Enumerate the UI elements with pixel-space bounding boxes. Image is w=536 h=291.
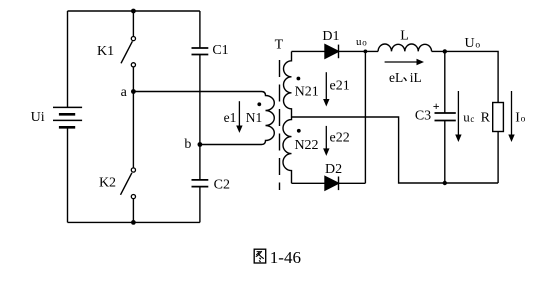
node top junction bbox=[131, 9, 136, 14]
wire D1 to L through node uo bbox=[339, 50, 379, 52]
polarity dot N22 bbox=[297, 129, 301, 133]
wire N22 bottom to D2 bbox=[292, 182, 326, 184]
wire K1 to K2 through node a bbox=[132, 67, 134, 167]
wire K branch top bbox=[132, 11, 134, 36]
svg-text:C2: C2 bbox=[214, 178, 230, 193]
wire left rail (battery branch bottom) bbox=[67, 128, 69, 222]
svg-text:+: + bbox=[433, 99, 440, 113]
node uo bbox=[364, 50, 368, 54]
wire C3 to bottom rail bbox=[444, 121, 446, 184]
inductor L bbox=[378, 44, 432, 51]
capacitor C3 bbox=[435, 113, 456, 121]
diode D1 bbox=[325, 45, 339, 59]
svg-text:N1: N1 bbox=[246, 110, 263, 125]
battery Ui bbox=[53, 107, 82, 127]
transformer core (dashed) bbox=[279, 60, 281, 190]
svg-text:b: b bbox=[184, 137, 191, 152]
arrow uc bbox=[457, 91, 459, 135]
wire top rail bbox=[68, 10, 200, 12]
wire uo vertical bbox=[364, 51, 366, 183]
transformer primary winding N1 bbox=[262, 92, 275, 145]
wire center tap bbox=[292, 117, 499, 183]
svg-text:eL: eL bbox=[389, 70, 403, 85]
node a bbox=[131, 89, 136, 94]
resistor R bbox=[493, 103, 504, 132]
arrow e21 bbox=[325, 72, 327, 99]
caption: hanzi tu (drawn) bbox=[254, 249, 266, 263]
svg-text:D2: D2 bbox=[325, 162, 342, 177]
capacitor C1 bbox=[192, 48, 209, 55]
svg-text:e1: e1 bbox=[224, 110, 237, 125]
arrow Io bbox=[511, 91, 513, 135]
svg-text:K1: K1 bbox=[97, 44, 114, 59]
svg-text:Ui: Ui bbox=[31, 110, 45, 125]
svg-text:1-46: 1-46 bbox=[270, 248, 301, 267]
svg-text:L: L bbox=[400, 28, 409, 43]
svg-text:uo: uo bbox=[356, 36, 367, 48]
wire bottom rail bbox=[68, 221, 200, 223]
wire C1 to C2 through node b bbox=[199, 55, 201, 180]
polarity dot N1 bbox=[257, 102, 261, 106]
node b bbox=[198, 142, 203, 147]
capacitor C2 bbox=[192, 180, 209, 187]
switch K1 bbox=[121, 37, 135, 67]
switch K2 bbox=[121, 168, 136, 199]
wire C2 to bottom rail bbox=[199, 187, 201, 223]
wire R bottom to rail bbox=[497, 132, 499, 184]
arrow e22 bbox=[325, 126, 327, 149]
node bottom junction bbox=[131, 220, 136, 225]
node C3 bottom bbox=[443, 181, 447, 185]
svg-text:e22: e22 bbox=[329, 131, 349, 146]
svg-text:e21: e21 bbox=[329, 78, 349, 93]
wire L to top-right corner bbox=[432, 51, 499, 102]
transformer secondary winding N21 bbox=[284, 52, 292, 118]
wire N21 top to D1 bbox=[292, 50, 326, 52]
svg-text:N21: N21 bbox=[295, 85, 319, 100]
svg-text:C1: C1 bbox=[212, 43, 228, 58]
svg-text:K2: K2 bbox=[99, 175, 116, 190]
svg-text:D1: D1 bbox=[322, 29, 339, 44]
polarity dot N21 bbox=[297, 77, 301, 81]
wire node a to primary bbox=[133, 91, 261, 93]
wire K2 to bottom rail bbox=[132, 199, 134, 222]
svg-text:R: R bbox=[481, 110, 491, 125]
arrow e1 bbox=[238, 101, 240, 126]
wire C3 branch bbox=[444, 51, 446, 113]
svg-text:iL: iL bbox=[410, 70, 422, 85]
svg-text:T: T bbox=[275, 37, 284, 52]
svg-text:C3: C3 bbox=[415, 108, 431, 123]
arrow eL iL bbox=[385, 61, 417, 63]
diode D2 bbox=[325, 177, 339, 191]
transformer secondary winding N22 bbox=[283, 117, 292, 183]
node after L bbox=[443, 49, 447, 53]
wire D2 to uo vertical bbox=[339, 182, 366, 184]
wire left rail (battery branch top) bbox=[67, 11, 69, 107]
wire node b to primary bbox=[200, 144, 262, 146]
svg-text:a: a bbox=[121, 85, 128, 100]
svg-text:N22: N22 bbox=[294, 138, 318, 153]
wire C branch top bbox=[199, 11, 201, 48]
